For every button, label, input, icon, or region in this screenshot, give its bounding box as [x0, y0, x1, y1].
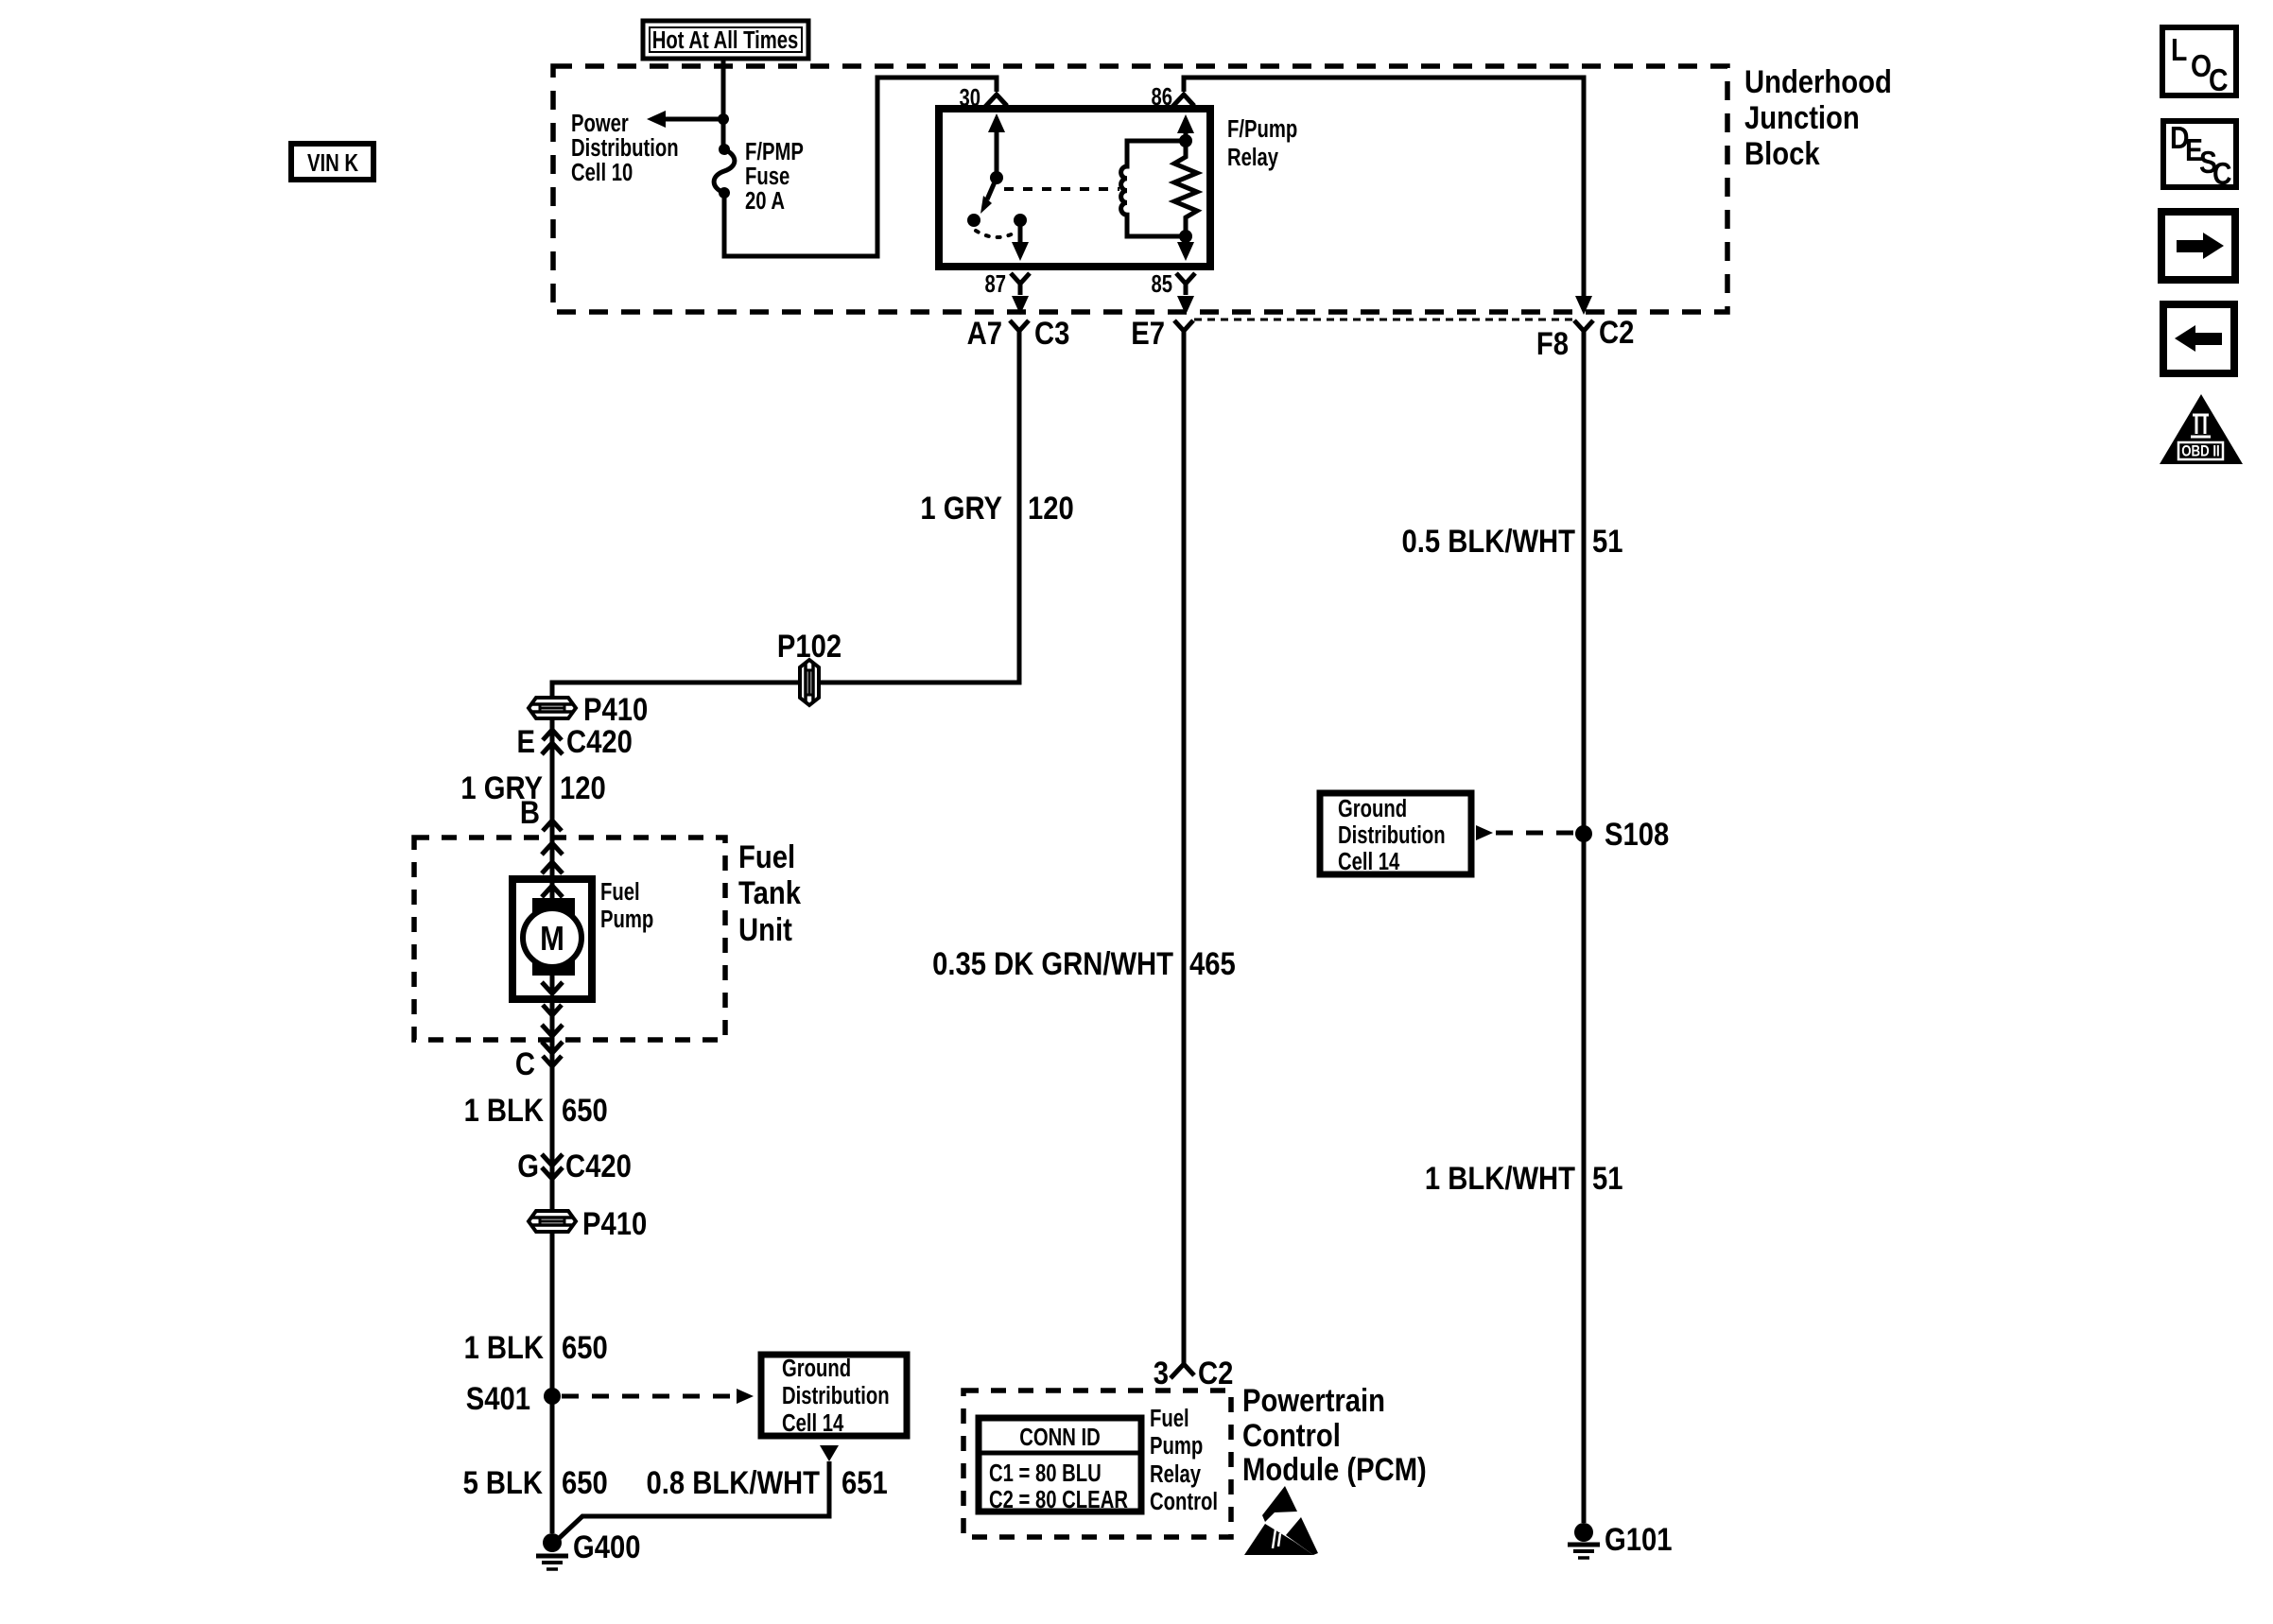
svg-text:86: 86	[1151, 83, 1172, 111]
wire 0.8 BLK/WHT 651 to G400	[552, 1461, 829, 1545]
svg-text:650: 650	[562, 1092, 608, 1129]
fuel pump brush lower	[532, 959, 575, 976]
svg-text:E: E	[517, 723, 535, 760]
svg-text:E7: E7	[1131, 315, 1165, 352]
svg-text:0.35 DK GRN/WHT: 0.35 DK GRN/WHT	[932, 945, 1173, 982]
svg-text:Underhood: Underhood	[1744, 63, 1892, 100]
svg-text:P410: P410	[583, 691, 648, 728]
CONN ID table	[979, 1418, 1141, 1512]
svg-text:M: M	[540, 921, 564, 959]
node splice hot feed	[718, 113, 729, 125]
svg-text:120: 120	[1028, 490, 1074, 527]
coil to pin 85 arrow	[1184, 236, 1189, 244]
svg-text:Fuel: Fuel	[1150, 1405, 1189, 1432]
svg-text:3: 3	[1154, 1355, 1169, 1391]
connector E C420	[543, 718, 562, 740]
wire hot feed down	[721, 59, 726, 146]
svg-text:1 GRY: 1 GRY	[920, 490, 1002, 527]
triangle from ground distribution box	[820, 1445, 839, 1461]
ground distribution cell 14 box upper	[1320, 793, 1471, 874]
relay contact travel arc	[976, 231, 1018, 237]
relay contacts	[967, 214, 980, 227]
pin 85 exit arrow	[1184, 296, 1189, 302]
svg-text:Block: Block	[1744, 135, 1820, 172]
svg-text:L: L	[2171, 32, 2187, 68]
label box Hot At All Times	[643, 21, 808, 59]
relay actuation dashed link	[1004, 187, 1119, 191]
pin 87 exit arrow	[1018, 296, 1023, 302]
svg-text:S401: S401	[466, 1380, 530, 1417]
svg-text:P102: P102	[777, 628, 842, 665]
wire arrow to Power Distribution	[662, 117, 723, 122]
fuel pump motor circle	[523, 908, 581, 967]
svg-text:30: 30	[959, 84, 980, 112]
connector G C420	[542, 1154, 563, 1166]
svg-text:1 BLK: 1 BLK	[464, 1092, 545, 1129]
svg-text:1 BLK/WHT: 1 BLK/WHT	[1425, 1160, 1576, 1197]
underhood junction block dashed outline	[553, 66, 1727, 312]
connector P410 lower	[529, 1211, 576, 1232]
fuse F/PMP 20A	[719, 144, 730, 155]
svg-text:51: 51	[1592, 523, 1623, 560]
svg-text:Pump: Pump	[1150, 1432, 1203, 1460]
svg-text:Fuse: Fuse	[745, 163, 789, 190]
coil riser arrow pin 86	[1184, 129, 1189, 141]
svg-text:C420: C420	[566, 723, 633, 760]
svg-text:0.5 BLK/WHT: 0.5 BLK/WHT	[1402, 523, 1576, 560]
svg-text:651: 651	[842, 1464, 888, 1501]
wire pin 86 feed to F8	[1184, 78, 1584, 301]
svg-text:Distribution: Distribution	[571, 134, 679, 162]
svg-text:85: 85	[1151, 270, 1172, 298]
svg-text:G400: G400	[573, 1529, 640, 1565]
svg-text:120: 120	[560, 769, 606, 806]
svg-text:Ground: Ground	[1338, 795, 1407, 822]
svg-text:C: C	[2212, 156, 2231, 192]
svg-text:F/Pump: F/Pump	[1227, 115, 1297, 143]
svg-text:OBD II: OBD II	[2181, 442, 2219, 460]
PCM dashed box	[963, 1391, 1231, 1537]
svg-text:Cell 10: Cell 10	[571, 159, 633, 186]
svg-text:650: 650	[562, 1464, 608, 1501]
pump exit wire	[550, 976, 555, 991]
ground G400	[543, 1533, 562, 1552]
svg-text:0.8 BLK/WHT: 0.8 BLK/WHT	[647, 1464, 821, 1501]
pump entry chevron	[542, 886, 563, 897]
svg-text:Fuel: Fuel	[738, 838, 795, 875]
svg-text:Power: Power	[571, 110, 629, 137]
wire fuse to relay pin 30	[724, 78, 997, 256]
svg-text:Distribution: Distribution	[782, 1382, 890, 1409]
relay resistor	[1174, 141, 1197, 236]
svg-text:F8: F8	[1536, 325, 1569, 362]
svg-text:C2: C2	[1599, 314, 1634, 351]
fuel tank unit dashed box	[414, 838, 725, 1040]
svg-text:Relay: Relay	[1227, 144, 1278, 171]
ground G101	[1574, 1523, 1593, 1542]
connector P102	[800, 660, 819, 705]
svg-text:C: C	[2209, 62, 2228, 98]
svg-text:650: 650	[562, 1329, 608, 1366]
svg-text:465: 465	[1189, 945, 1236, 982]
wire F8 to G101	[1582, 333, 1587, 1523]
wire E7 to PCM pin 3	[1182, 333, 1187, 1364]
F8 exit arrow	[1575, 296, 1592, 315]
icon DESC	[2163, 121, 2236, 187]
relay box F/Pump Relay	[939, 109, 1210, 267]
svg-text:Distribution: Distribution	[1338, 821, 1446, 849]
svg-text:C: C	[515, 1045, 535, 1082]
svg-text:CONN ID: CONN ID	[1019, 1424, 1101, 1451]
ESD warning symbol	[1262, 1486, 1297, 1522]
svg-text:Fuel: Fuel	[600, 878, 640, 906]
svg-text:C2 = 80 CLEAR: C2 = 80 CLEAR	[989, 1486, 1128, 1513]
svg-text:A7: A7	[967, 315, 1002, 352]
svg-text:Pump: Pump	[600, 906, 653, 933]
svg-text:C3: C3	[1034, 315, 1069, 352]
svg-text:1 BLK: 1 BLK	[464, 1329, 545, 1366]
icon arrow left	[2163, 304, 2234, 373]
svg-text:Relay: Relay	[1150, 1460, 1201, 1488]
svg-text:Module (PCM): Module (PCM)	[1242, 1451, 1427, 1488]
svg-text:C1 = 80 BLU: C1 = 80 BLU	[989, 1460, 1102, 1487]
fuel pump rect	[512, 879, 592, 999]
svg-text:Unit: Unit	[738, 911, 792, 948]
connector C2 thin dashed line	[1194, 319, 1572, 321]
ground distribution cell 14 box lower	[761, 1355, 907, 1436]
svg-text:5 BLK: 5 BLK	[463, 1464, 544, 1501]
svg-text:Cell 14: Cell 14	[782, 1409, 843, 1437]
svg-text:P410: P410	[582, 1205, 647, 1242]
svg-text:51: 51	[1592, 1160, 1623, 1197]
svg-text:Control: Control	[1242, 1417, 1341, 1454]
svg-text:Control: Control	[1150, 1488, 1218, 1515]
dashed link S108 to ground distribution	[1476, 825, 1493, 840]
svg-text:C420: C420	[565, 1148, 632, 1184]
svg-text:20 A: 20 A	[745, 187, 785, 215]
splice S401	[544, 1388, 561, 1405]
splice S108	[1575, 825, 1592, 842]
connector P410 upper	[529, 698, 576, 718]
svg-text:Hot At All Times: Hot At All Times	[652, 26, 799, 54]
dashed link to ground distribution	[562, 1394, 736, 1399]
icon OBD II	[2160, 394, 2243, 464]
tank entry chevrons	[542, 843, 563, 855]
tank exit connector upper	[543, 1005, 562, 1027]
label box VIN K	[291, 144, 373, 180]
connector C	[542, 1042, 563, 1053]
relay coil	[1121, 141, 1186, 236]
svg-text:G: G	[517, 1148, 539, 1184]
wire C to G400	[550, 999, 555, 1533]
svg-text:Powertrain: Powertrain	[1242, 1382, 1385, 1419]
svg-text:F/PMP: F/PMP	[745, 138, 804, 165]
svg-text:Ground: Ground	[782, 1355, 851, 1382]
svg-text:87: 87	[984, 270, 1006, 298]
icon arrow right	[2161, 212, 2235, 280]
relay coil nodes	[1179, 134, 1192, 147]
svg-text:B: B	[520, 794, 540, 831]
svg-text:C2: C2	[1198, 1355, 1233, 1391]
relay arm pivot	[990, 171, 1003, 184]
svg-text:Cell 14: Cell 14	[1338, 848, 1399, 875]
icon LOC	[2162, 27, 2236, 95]
fuel pump brush upper	[532, 898, 575, 917]
wire A7 to fuel pump	[552, 331, 1019, 898]
svg-text:G101: G101	[1605, 1521, 1672, 1558]
svg-text:S108: S108	[1605, 816, 1669, 853]
svg-text:VIN K: VIN K	[307, 149, 358, 177]
relay switch arm	[987, 178, 997, 199]
contact to pin 87 arrow	[1018, 220, 1023, 244]
svg-text:Junction: Junction	[1744, 99, 1860, 136]
svg-text:Tank: Tank	[738, 874, 801, 911]
relay common arm riser pin 30	[995, 129, 999, 178]
connector B	[543, 809, 562, 831]
